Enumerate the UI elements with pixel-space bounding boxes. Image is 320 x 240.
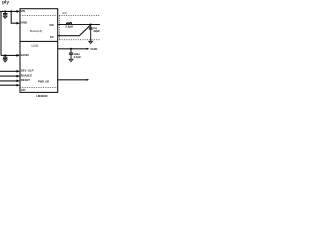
background xyxy=(0,0,100,100)
wire LDO output xyxy=(58,48,87,50)
IC internal dashed line above GPIO xyxy=(20,86,58,88)
dashed x3 channel boundary left xyxy=(58,15,60,39)
arrow PWR_OK output xyxy=(87,79,90,81)
arrow LDO output xyxy=(87,48,90,50)
wire RESET input xyxy=(0,80,18,82)
node junction dot B xyxy=(10,10,12,12)
svg-text:GPI: GPI xyxy=(21,88,26,92)
dashed x3 channel boundary bottom xyxy=(59,39,100,41)
svg-text:Buck(x3): Buck(x3) xyxy=(30,29,42,33)
svg-text:PWR_OK: PWR_OK xyxy=(38,79,50,83)
node junction dot A xyxy=(4,10,6,12)
capacitor Cldo xyxy=(69,49,73,59)
node junction dot C xyxy=(4,54,6,56)
wire analog supply bottom xyxy=(1,54,18,56)
ground bottom-left xyxy=(3,60,7,62)
inductor L1 2.2uH xyxy=(66,23,71,25)
svg-text:VLDO: VLDO xyxy=(90,48,97,51)
wire DEV_SLP input xyxy=(0,70,18,72)
wire GPIO input xyxy=(0,84,18,86)
svg-text:DEV_SLP: DEV_SLP xyxy=(21,68,34,72)
IC U1 LM39030 box xyxy=(20,9,58,93)
svg-text:SW: SW xyxy=(49,23,54,27)
svg-text:LM39030: LM39030 xyxy=(36,94,48,98)
ground LDO cap xyxy=(69,59,73,61)
dashed x3 channel boundary top xyxy=(20,14,100,16)
IC internal divider buck/LDO xyxy=(20,40,58,42)
node output junction dot xyxy=(90,23,92,25)
pin arrow VIN xyxy=(17,10,21,13)
wire SW output xyxy=(58,24,100,26)
wire ENABLE input xyxy=(0,75,18,77)
capacitor Co buck output xyxy=(89,25,93,42)
svg-text:VIN: VIN xyxy=(20,9,25,13)
pin arrow VAND xyxy=(17,54,21,57)
wire VINB branch xyxy=(11,11,18,23)
wire supply vertical bus xyxy=(0,11,2,55)
svg-text:VAND: VAND xyxy=(20,53,29,57)
svg-text:ENABLE: ENABLE xyxy=(21,73,33,77)
svg-text:2.2μH: 2.2μH xyxy=(65,24,73,28)
node LDO junction dot xyxy=(70,48,72,50)
wire FB feedback xyxy=(58,25,91,36)
pin arrow VINB xyxy=(17,22,21,25)
ground buck output cap xyxy=(89,41,93,43)
svg-text:22μF: 22μF xyxy=(93,29,100,33)
svg-text:VINB: VINB xyxy=(20,21,27,25)
svg-text:(x3): (x3) xyxy=(62,11,67,15)
wire PWR_OK output xyxy=(58,79,87,81)
svg-text:RESET: RESET xyxy=(21,78,31,82)
svg-text:4.7μF: 4.7μF xyxy=(74,55,82,59)
svg-text:LDO: LDO xyxy=(32,44,39,48)
capacitor Cana bottom-left xyxy=(3,55,7,59)
ground top-left xyxy=(3,16,7,18)
wire supply rail top xyxy=(0,10,18,12)
svg-text:FB: FB xyxy=(50,35,54,39)
svg-text:ply: ply xyxy=(2,0,9,6)
capacitor Cin top xyxy=(3,11,7,16)
